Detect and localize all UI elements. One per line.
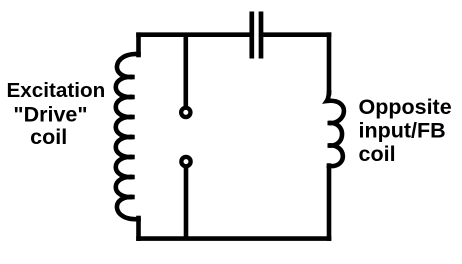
wire left vertical top stub <box>136 35 141 55</box>
svg-text:coil: coil <box>359 142 396 166</box>
wire right vertical top stub <box>327 35 332 93</box>
wire top-left horizontal segment <box>139 32 251 37</box>
svg-text:input/FB: input/FB <box>359 119 446 143</box>
svg-text:Excitation: Excitation <box>6 79 105 102</box>
wire left vertical bottom stub <box>136 218 141 239</box>
label Opposite input/FB coil <box>359 95 452 166</box>
svg-text:"Drive": "Drive" <box>13 102 87 126</box>
terminal lower open-circle contact <box>181 157 190 166</box>
capacitor C1 right plate <box>259 12 264 59</box>
inductor L1 Excitation Drive coil <box>116 54 139 219</box>
inductor L2 Opposite input/FB coil <box>327 93 344 167</box>
wire bottom horizontal <box>139 236 330 241</box>
terminal upper open-circle contact <box>181 108 190 117</box>
wire right vertical bottom stub <box>327 166 332 239</box>
capacitor C1 left plate <box>249 12 254 59</box>
label Excitation "Drive" coil <box>6 79 105 149</box>
svg-text:coil: coil <box>30 125 67 149</box>
wire middle lower vertical (from open terminal) <box>184 168 189 239</box>
wire middle upper vertical (to open terminal) <box>184 35 189 106</box>
wire top-right horizontal segment <box>263 32 329 37</box>
svg-text:Opposite: Opposite <box>359 95 452 119</box>
